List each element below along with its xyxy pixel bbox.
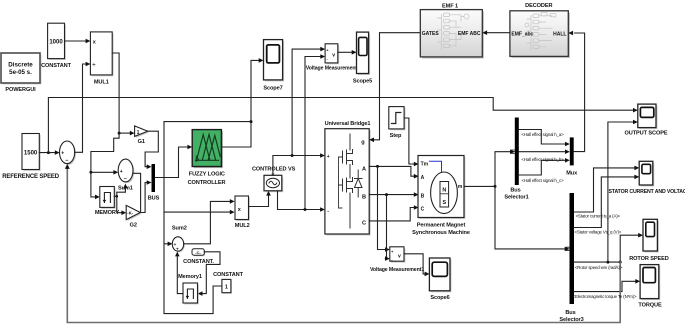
wire Bus Selector3 output 2 up to stator scope input 2 bbox=[574, 177, 635, 228]
wire BUS output to FUZZY input bbox=[155, 147, 188, 178]
scope Scope5 bbox=[353, 32, 372, 84]
bus selector bar Bus Selector1 bbox=[504, 118, 528, 201]
svg-text:<Electromagnetic torque Te (N*: <Electromagnetic torque Te (N*m)> bbox=[573, 294, 637, 299]
powergui block POWERGUI bbox=[1, 53, 42, 93]
node: VM1 - tap dot on B line bbox=[385, 193, 388, 196]
svg-text:Sum2: Sum2 bbox=[172, 226, 187, 232]
voltage measurement block Voltage Measurement1 bbox=[370, 247, 424, 273]
memory block Memory1 (flipped) bbox=[178, 274, 202, 305]
svg-text:5e-05 s.: 5e-05 s. bbox=[9, 69, 32, 76]
wire bridge B output to PMSM B input bbox=[369, 194, 414, 196]
svg-text:Bus: Bus bbox=[510, 188, 520, 194]
wire G2 output to BUS input 2 bbox=[140, 183, 147, 213]
svg-text:Scope6: Scope6 bbox=[430, 295, 449, 301]
svg-text:1000: 1000 bbox=[49, 40, 63, 46]
wire Step output to PMSM Tm input bbox=[404, 118, 414, 164]
wire MUL2 output to CONTROLLED VS signal input bbox=[249, 196, 269, 207]
scope OUTPUT SCOPE bbox=[625, 104, 668, 137]
node: VM + tap dot bbox=[291, 154, 294, 157]
scope TORQUE bbox=[638, 265, 662, 309]
wire Bus Selector1 output 2 to Mux input 2 bbox=[519, 151, 566, 153]
wire memory out branch to G2 input bbox=[117, 196, 122, 212]
wire FUZZY output up to Scope7 with junction bbox=[221, 60, 259, 147]
svg-text:OUTPUT SCOPE: OUTPUT SCOPE bbox=[625, 131, 668, 137]
wire G1 output to BUS input 1 bbox=[145, 131, 158, 167]
signal label Stator current is_a (A) bbox=[576, 214, 621, 219]
sum junction Sum1 bbox=[118, 159, 134, 192]
step block Step bbox=[389, 107, 406, 140]
svg-text:−: − bbox=[65, 158, 68, 164]
wire m down to Bus Selector3 input bbox=[495, 186, 565, 249]
svg-text:C: C bbox=[421, 207, 425, 213]
node: rotor speed feedback dot bbox=[619, 261, 622, 264]
signal label Rotor speed wm (rad/s) bbox=[575, 265, 623, 270]
wire VS - terminal to bridge - with VM tap node bbox=[278, 191, 321, 210]
svg-text:S: S bbox=[442, 200, 446, 206]
svg-text:Memory1: Memory1 bbox=[178, 274, 202, 280]
wire sum output up to MUL1 divide input bbox=[75, 64, 86, 152]
svg-text:CONTROLED VS: CONTROLED VS bbox=[252, 167, 296, 173]
svg-text:Scope7: Scope7 bbox=[263, 86, 282, 92]
svg-text:C: C bbox=[362, 221, 366, 227]
svg-text:−: − bbox=[124, 177, 127, 183]
wire VM output to Scope5 bbox=[338, 51, 352, 53]
svg-text:+: + bbox=[120, 169, 123, 175]
wire bridge C output to PMSM C input bbox=[369, 208, 414, 221]
svg-text:Step: Step bbox=[390, 133, 402, 139]
svg-text:FUZZY LOGIC: FUZZY LOGIC bbox=[189, 172, 225, 178]
gain G1 bbox=[135, 126, 150, 145]
PMSM block Permanent Magnet Synchronous Machine bbox=[412, 156, 470, 236]
wire Memory1 output up to Sum2 bottom input bbox=[177, 257, 183, 294]
svg-text:MUL1: MUL1 bbox=[94, 80, 109, 86]
svg-text:A: A bbox=[421, 175, 425, 181]
node: VM1 + tap dot on A line bbox=[376, 165, 379, 168]
svg-text:CONSTANT: CONSTANT bbox=[213, 272, 244, 278]
wire rotor speed branch up to OUTPUT SCOPE input 2 bbox=[608, 122, 633, 262]
wire reference speed riser to main top line then to OUTPUT SCOPE input 1 bbox=[48, 98, 633, 153]
wire -C- output to Memory1 input bbox=[202, 252, 220, 294]
node: memory out branch bbox=[116, 195, 119, 198]
constant block CONSTANT (1, flipped) bbox=[213, 272, 244, 294]
subsystem block DECODER bbox=[510, 3, 570, 58]
sum junction (speed error) bbox=[60, 141, 77, 165]
mux bar BUS bbox=[148, 164, 160, 202]
wire Bus Selector3 output 4 (torque) to TORQUE scope bbox=[574, 281, 636, 291]
subsystem block EMF 1 bbox=[420, 4, 484, 59]
wire bridge A output to PMSM A input bbox=[369, 166, 414, 176]
node: Sum1 branch dot bbox=[89, 171, 92, 174]
bus selector bar Bus Selector3 bbox=[559, 193, 583, 323]
constant block -C- (CONSTANT.) bbox=[183, 249, 214, 265]
wire branch to Sum1 left input bbox=[91, 171, 114, 173]
signal label Hall effect signal h_c bbox=[522, 178, 565, 183]
wire VM1 output to Scope6 bbox=[404, 254, 425, 274]
node: reference branch dot bbox=[47, 151, 50, 154]
svg-text:GATES: GATES bbox=[422, 31, 440, 37]
wire Sum1 output down to G2 tip bbox=[133, 173, 141, 212]
svg-text:G1: G1 bbox=[138, 139, 145, 145]
svg-text:g: g bbox=[361, 140, 365, 146]
wire VM1 + tap down bbox=[378, 166, 386, 249]
constant block REFERENCE SPEED (1500) bbox=[2, 134, 60, 181]
controlled voltage source CONTROLED VS bbox=[252, 167, 296, 193]
wire DECODER EMF_abc output to EMF1 EMF ABC input bbox=[487, 32, 510, 34]
wire VS + terminal to bridge + with VM tap node bbox=[273, 156, 320, 176]
wire Bus Selector1 output 1 to Mux input 1 bbox=[519, 130, 566, 145]
svg-text:1500: 1500 bbox=[24, 151, 38, 157]
svg-text:EMF 1: EMF 1 bbox=[442, 4, 458, 10]
svg-text:Mux: Mux bbox=[566, 171, 578, 177]
svg-text:G2: G2 bbox=[130, 222, 137, 228]
svg-text:DECODER: DECODER bbox=[525, 3, 552, 9]
node: fuzzy output junction dot bbox=[250, 120, 253, 123]
wire PMSM m output to bus selectors bbox=[464, 152, 510, 187]
svg-text:Universal Bridge1: Universal Bridge1 bbox=[325, 121, 371, 127]
constant block CONSTANT (1000) bbox=[41, 23, 72, 69]
svg-text:BUS: BUS bbox=[148, 196, 160, 202]
fuzzy logic controller block bbox=[188, 130, 226, 186]
memory block MEMORY bbox=[95, 187, 120, 216]
node: G1 branch dot bbox=[118, 132, 121, 135]
svg-text:TORQUE: TORQUE bbox=[638, 303, 662, 309]
mux bar Mux bbox=[566, 137, 578, 176]
wire branch to Sum2 left input bbox=[164, 243, 168, 245]
svg-text:EMF ABC: EMF ABC bbox=[458, 31, 481, 37]
svg-text:B: B bbox=[362, 195, 366, 201]
svg-text:MUL2: MUL2 bbox=[235, 223, 250, 229]
svg-text:B: B bbox=[421, 193, 425, 199]
wire Bus Selector3 output 3 (rotor speed) to ROTOR SPEED scope bbox=[574, 235, 639, 262]
wire MEMORY output to Sum1 bottom input bbox=[114, 189, 125, 197]
wire EMF1 GATES output down to bridge g input bbox=[374, 33, 420, 140]
svg-text:+: + bbox=[61, 151, 64, 157]
wire VM + tap riser bbox=[292, 49, 321, 155]
svg-text:ROTOR SPEED: ROTOR SPEED bbox=[629, 256, 669, 262]
wire VM - tap riser bbox=[305, 57, 321, 210]
signal label Stator voltage Vs_q (V) bbox=[574, 229, 621, 234]
wire fuzzy branch left and down (to MUL2 / Sum2 / const 1 net) bbox=[164, 122, 251, 314]
svg-text:<Stator current is_a (A)>: <Stator current is_a (A)> bbox=[576, 214, 621, 219]
wire speed feedback loop to sum bottom input bbox=[67, 169, 620, 323]
svg-text:POWERGUI: POWERGUI bbox=[5, 87, 36, 93]
svg-text:<Hall effect signal h_a>: <Hall effect signal h_a> bbox=[521, 132, 564, 137]
arrowhead into MEMORY input bbox=[95, 195, 100, 200]
svg-text:-K-: -K- bbox=[127, 211, 133, 216]
svg-text:CONTROLLER: CONTROLLER bbox=[188, 180, 226, 186]
svg-text:EMF_abc: EMF_abc bbox=[511, 31, 533, 37]
svg-text:v: v bbox=[332, 52, 335, 58]
wire Bus Selector3 output 1 up to stator scope input 1 bbox=[574, 168, 635, 212]
universal bridge block Universal Bridge1 bbox=[325, 121, 371, 236]
wire Mux output up to DECODER HALL input bbox=[574, 33, 585, 152]
svg-text:<Stator voltage Vs_q (V)>: <Stator voltage Vs_q (V)> bbox=[574, 229, 621, 234]
voltage measurement block Voltage Measurement bbox=[306, 44, 358, 72]
wire MUL1 output down (error line) bbox=[112, 53, 119, 133]
sum junction Sum2 bbox=[172, 226, 187, 253]
gain G2 bbox=[126, 205, 142, 228]
svg-text:STATOR CURRENT AND VOLTAGE: STATOR CURRENT AND VOLTAGE bbox=[609, 189, 685, 195]
svg-text:Discrete: Discrete bbox=[8, 62, 33, 69]
svg-text:MEMORY: MEMORY bbox=[95, 210, 120, 216]
svg-text:Synchronous Machine: Synchronous Machine bbox=[412, 230, 470, 236]
node: rotor speed to output scope dot bbox=[606, 261, 609, 264]
wire branch to MUL2 input 2 bbox=[164, 211, 230, 213]
multiplier MUL2 bbox=[235, 196, 250, 229]
scope ROTOR SPEED bbox=[629, 219, 669, 262]
svg-text:Tm: Tm bbox=[421, 161, 429, 167]
svg-text:Permanent Magnet: Permanent Magnet bbox=[417, 223, 466, 229]
scope Scope6 bbox=[429, 258, 451, 301]
wire 1000 to MUL1 x input bbox=[65, 40, 86, 42]
svg-text:<Hall effect signal h_b>: <Hall effect signal h_b> bbox=[521, 157, 564, 162]
svg-text:A: A bbox=[362, 167, 366, 173]
svg-text:Scope5: Scope5 bbox=[353, 78, 372, 84]
svg-text:REFERENCE SPEED: REFERENCE SPEED bbox=[2, 174, 60, 180]
svg-text:N: N bbox=[442, 188, 446, 194]
node: VM - tap dot bbox=[304, 208, 307, 211]
svg-text:<Hall effect signal h_c>: <Hall effect signal h_c> bbox=[522, 178, 565, 183]
svg-text:-C-: -C- bbox=[195, 250, 201, 255]
arrowhead into MUL1 x bbox=[86, 39, 91, 44]
multiplier MUL1 bbox=[90, 32, 113, 86]
wire error line staircase down to Sum1 and MEMORY bbox=[91, 133, 119, 197]
svg-text:Voltage Measurement: Voltage Measurement bbox=[306, 66, 358, 72]
svg-text:+: + bbox=[327, 154, 330, 160]
signal label Hall effect signal h_b bbox=[521, 157, 564, 162]
svg-text:HALL: HALL bbox=[553, 31, 566, 37]
svg-text:CONSTANT: CONSTANT bbox=[41, 63, 72, 69]
wire Sum2 output to MUL2 input 1 bbox=[184, 201, 230, 243]
node: m split dot bbox=[494, 185, 497, 188]
scope STATOR CURRENT AND VOLTAGE bbox=[609, 161, 685, 195]
wire VM1 - tap down bbox=[385, 195, 386, 259]
svg-text:-: - bbox=[327, 208, 329, 214]
wire Bus Selector1 output 3 to Mux input 3 bbox=[519, 160, 566, 175]
svg-text:v: v bbox=[398, 253, 401, 259]
svg-text:1: 1 bbox=[137, 130, 140, 136]
signal label Hall effect signal h_a bbox=[521, 132, 564, 137]
svg-text:1: 1 bbox=[225, 284, 228, 290]
svg-text:+: + bbox=[176, 247, 179, 252]
signal label Electromagnetic torque Te (N*m) bbox=[573, 294, 637, 299]
wire 1500 to sum with branch node bbox=[39, 152, 56, 154]
svg-text:Voltage Measurement1: Voltage Measurement1 bbox=[370, 267, 424, 273]
svg-text:Bus: Bus bbox=[565, 310, 575, 316]
wire branch to G1 input bbox=[119, 132, 130, 134]
scope Scope7 bbox=[263, 40, 284, 92]
svg-text:m: m bbox=[458, 184, 463, 190]
svg-text:<Rotor speed wm (rad/s)>: <Rotor speed wm (rad/s)> bbox=[575, 265, 623, 270]
svg-text:Selector1: Selector1 bbox=[504, 194, 528, 200]
